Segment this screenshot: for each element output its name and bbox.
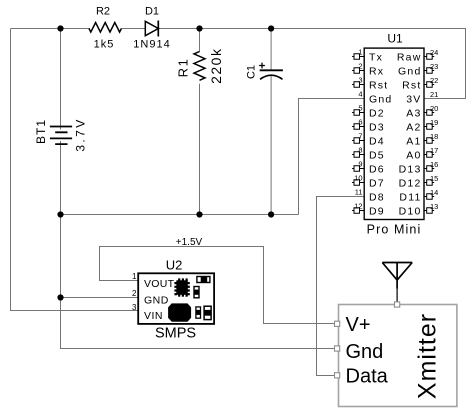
antenna (382, 263, 412, 302)
U2 SMD small bottom (196, 307, 201, 318)
U2 internal IC (QFN) (174, 278, 189, 296)
svg-text:11: 11 (355, 188, 363, 197)
pin 10 D7 (352, 174, 385, 190)
pin 23 Gnd (398, 62, 438, 77)
pin 14 D11 (399, 188, 438, 203)
svg-text:Xmitter: Xmitter (414, 313, 442, 399)
svg-text:V+: V+ (346, 314, 371, 336)
pin 17 A0 (406, 146, 438, 161)
svg-text:3: 3 (358, 76, 362, 85)
svg-text:R2: R2 (96, 6, 110, 18)
U2 SMD large bottom (204, 306, 211, 319)
pin 4 Gnd (358, 90, 392, 106)
resistor R2 (89, 23, 121, 33)
svg-text:14: 14 (430, 188, 438, 197)
wire top rail left segment (11, 28, 91, 30)
svg-text:Data: Data (346, 366, 389, 388)
svg-text:C1: C1 (246, 65, 258, 79)
pin 22 Rst (402, 76, 438, 91)
svg-text:D12: D12 (399, 177, 422, 189)
svg-text:17: 17 (430, 146, 438, 155)
svg-text:6: 6 (358, 118, 362, 127)
svg-text:+1.5V: +1.5V (176, 237, 203, 248)
pin 16 D13 (399, 160, 439, 175)
junction at R1 bottom (196, 211, 202, 217)
svg-text:Gnd: Gnd (369, 93, 392, 105)
svg-text:12: 12 (354, 202, 362, 211)
svg-text:2: 2 (132, 289, 137, 298)
svg-text:Pro Mini: Pro Mini (367, 223, 422, 237)
svg-text:D9: D9 (369, 205, 385, 217)
svg-text:23: 23 (430, 62, 438, 71)
svg-text:7: 7 (358, 132, 362, 141)
svg-text:2: 2 (358, 62, 362, 71)
wire battery bottom lead down and right to Xmitter Gnd (61, 141, 335, 349)
svg-text:22: 22 (430, 76, 438, 85)
pin 1 Tx (352, 48, 383, 64)
wire R1 top lead (199, 29, 201, 53)
svg-text:10: 10 (354, 174, 362, 183)
svg-text:Rst: Rst (402, 79, 421, 91)
Xmitter module box (339, 305, 457, 407)
svg-text:VIN: VIN (144, 310, 163, 322)
battery BT1 (50, 127, 72, 145)
svg-text:GND: GND (144, 295, 169, 307)
svg-text:Gnd: Gnd (398, 65, 421, 77)
svg-text:D13: D13 (399, 163, 422, 175)
junction at battery bottom rail (57, 211, 63, 217)
Xmitter pin V+ (335, 314, 371, 336)
svg-text:19: 19 (430, 118, 438, 127)
wire mid ground rail (61, 214, 299, 216)
U2 SMD capacitor top right (197, 277, 210, 283)
pin 8 D5 (352, 146, 385, 162)
svg-text:5: 5 (358, 104, 362, 113)
svg-text:21: 21 (430, 90, 438, 99)
svg-text:D1: D1 (145, 6, 159, 18)
svg-text:4: 4 (358, 90, 362, 99)
svg-text:BT1: BT1 (34, 119, 48, 144)
svg-text:220k: 220k (208, 48, 224, 84)
svg-text:D7: D7 (369, 177, 385, 189)
svg-text:R1: R1 (176, 58, 191, 78)
svg-text:D5: D5 (369, 149, 385, 161)
svg-text:D8: D8 (369, 191, 385, 203)
svg-text:1: 1 (132, 272, 137, 281)
pin 3 Rst (352, 76, 388, 92)
pin 2 Rx (352, 62, 384, 78)
wire top rail right segment to corner and down to U1 pin 21 (3V) (158, 29, 465, 99)
svg-text:U2: U2 (166, 258, 183, 273)
IC U1 Pro Mini (364, 48, 424, 219)
pin 24 Raw (397, 48, 438, 63)
svg-text:A3: A3 (406, 107, 421, 119)
wire U2 pin 1 VOUT +1.5V loop to Xmitter V+ (100, 247, 335, 324)
svg-text:SMPS: SMPS (155, 326, 196, 342)
wire C1 bottom lead with tick through arc (270, 75, 272, 215)
svg-text:Gnd: Gnd (346, 341, 384, 363)
capacitor C1 (259, 63, 283, 80)
pin 19 A2 (406, 118, 438, 133)
svg-text:Tx: Tx (369, 51, 383, 63)
svg-text:15: 15 (430, 174, 438, 183)
svg-text:A1: A1 (406, 135, 421, 147)
U2 SMD resistor middle right (194, 287, 199, 298)
pin 9 D6 (352, 160, 385, 176)
pin 12 D9 (352, 202, 385, 218)
svg-text:1: 1 (358, 48, 362, 57)
svg-text:D3: D3 (369, 121, 385, 133)
diode D1 (145, 21, 158, 37)
pin 13 D10 (399, 202, 439, 217)
svg-text:1k5: 1k5 (94, 39, 115, 51)
svg-text:VOUT: VOUT (144, 278, 175, 290)
pin 20 A3 (406, 104, 438, 119)
pin 5 D2 (352, 104, 385, 120)
svg-text:3: 3 (132, 303, 137, 312)
svg-text:3.7V: 3.7V (74, 117, 88, 151)
junction at R1 top (196, 25, 202, 31)
svg-text:D6: D6 (369, 163, 385, 175)
svg-text:A0: A0 (406, 149, 421, 161)
svg-text:13: 13 (430, 202, 438, 211)
wire battery top lead (60, 29, 62, 130)
svg-text:1N914: 1N914 (133, 39, 170, 51)
svg-text:20: 20 (430, 104, 438, 113)
svg-text:16: 16 (430, 160, 438, 169)
svg-text:24: 24 (430, 48, 438, 57)
wire R1 bottom lead (199, 84, 201, 215)
svg-text:9: 9 (358, 160, 362, 169)
svg-text:3V: 3V (406, 93, 421, 105)
pin 11 D8 (355, 188, 385, 204)
svg-text:D10: D10 (399, 205, 422, 217)
pin 15 D12 (399, 174, 439, 189)
junction at C1 top (268, 25, 274, 31)
wire U1 pin 11 D8 to Xmitter Data (317, 197, 365, 376)
svg-text:A2: A2 (406, 121, 421, 133)
svg-text:D2: D2 (369, 107, 385, 119)
module U2 SMPS box (138, 273, 214, 324)
resistor R1 (194, 52, 205, 81)
svg-text:U1: U1 (387, 32, 403, 46)
svg-text:Raw: Raw (397, 51, 422, 63)
svg-text:Rst: Rst (369, 79, 388, 91)
wire between R2 and D1 (122, 28, 146, 30)
junction at battery top (57, 25, 63, 31)
junction at U2 GND tap (57, 294, 63, 300)
pin 7 D4 (352, 132, 385, 148)
svg-text:D11: D11 (399, 191, 421, 203)
Xmitter pin Gnd (335, 341, 384, 363)
svg-text:18: 18 (430, 132, 438, 141)
pin 21 3V (406, 90, 438, 105)
junction at C1 bottom (268, 211, 274, 217)
pin 18 A1 (406, 132, 438, 147)
svg-text:Rx: Rx (369, 65, 384, 77)
wire U2 pin 2 GND tap to battery line (61, 297, 139, 299)
wire left drop from top rail to U2 pin 3 VIN (11, 29, 139, 311)
svg-text:D4: D4 (369, 135, 385, 147)
antenna pin square (395, 302, 400, 307)
Xmitter pin Data (335, 366, 389, 388)
U2 inductor (168, 303, 191, 321)
svg-text:8: 8 (358, 146, 362, 155)
wire C1 top lead (270, 29, 272, 71)
pin 6 D3 (352, 118, 385, 134)
wire U1 pin 4 Gnd down to mid rail (299, 99, 365, 215)
